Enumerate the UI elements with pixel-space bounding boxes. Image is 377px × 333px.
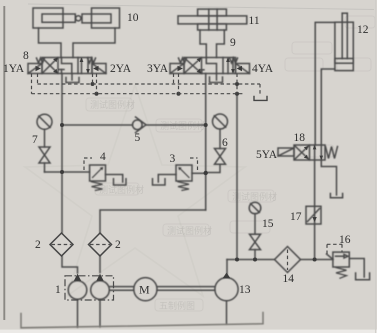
svg-text:2: 2 <box>35 239 41 251</box>
svg-text:7: 7 <box>32 134 38 146</box>
svg-text:6: 6 <box>222 137 228 149</box>
svg-text:14: 14 <box>283 273 295 285</box>
svg-text:15: 15 <box>262 218 274 230</box>
svg-text:M: M <box>139 283 150 297</box>
svg-text:5YA: 5YA <box>256 149 278 161</box>
svg-text:测试图例材: 测试图例材 <box>167 225 212 236</box>
svg-text:8: 8 <box>23 50 29 62</box>
svg-text:10: 10 <box>127 12 139 24</box>
svg-text:2YA: 2YA <box>110 63 132 75</box>
svg-text:2: 2 <box>115 239 121 251</box>
svg-text:5: 5 <box>135 132 141 144</box>
svg-text:9: 9 <box>230 37 236 49</box>
svg-text:16: 16 <box>339 234 351 246</box>
svg-text:1: 1 <box>55 284 61 296</box>
svg-text:12: 12 <box>357 24 369 36</box>
svg-text:3: 3 <box>170 153 176 165</box>
svg-text:18: 18 <box>294 132 306 144</box>
svg-text:17: 17 <box>290 211 302 223</box>
svg-text:11: 11 <box>249 15 260 27</box>
svg-text:1YA: 1YA <box>3 63 25 75</box>
svg-text:13: 13 <box>239 284 251 296</box>
svg-text:测试图例材: 测试图例材 <box>90 99 135 110</box>
svg-text:4: 4 <box>100 151 106 163</box>
svg-text:3YA: 3YA <box>147 63 169 75</box>
svg-text:五制例图: 五制例图 <box>159 300 195 311</box>
svg-text:测试图例材: 测试图例材 <box>232 191 277 202</box>
svg-text:4YA: 4YA <box>252 63 274 75</box>
